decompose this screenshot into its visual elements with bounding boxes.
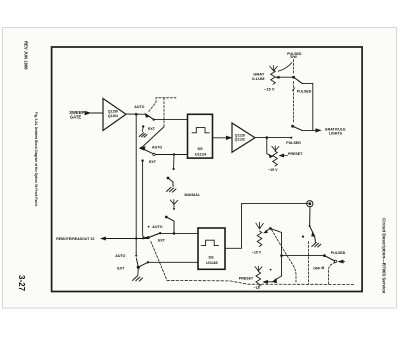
wire U2 output <box>255 137 291 139</box>
linkage curve from GRAT pot shaft to PULSED S/W <box>278 63 292 72</box>
wire U1124 output to U2 with arrow <box>213 137 229 139</box>
S5 open contact <box>302 236 304 238</box>
trident above R1 <box>272 146 279 151</box>
S4 ground stub <box>137 267 140 275</box>
wire U1148 output up to lamp <box>225 204 308 249</box>
op-amp U1 sweep gate amplifier Q1156/Q1164 <box>103 99 126 131</box>
svg-text:LIGHTS: LIGHTS <box>329 132 343 136</box>
svg-text:U1148: U1148 <box>206 260 218 265</box>
svg-text:3-27: 3-27 <box>17 275 26 292</box>
block U1148 single sweep <box>198 228 225 269</box>
wire bus to S7 PULSED/OFF switch <box>282 255 325 257</box>
op-amp U2 pulsed amp Q1128/Q1132 <box>232 123 255 152</box>
S1B throw contact <box>141 148 153 154</box>
potentiometer R1 PRESET (pulsed amp) <box>273 151 278 166</box>
wire vertical rail from node A down <box>135 114 137 252</box>
dashed linkage diagonal S3 to bottom rail <box>151 242 167 281</box>
svg-text:−15 V: −15 V <box>264 86 275 91</box>
bottom dashed linkage rail <box>167 280 355 284</box>
switch S3 (readout pole) <box>147 236 150 239</box>
node A junction <box>135 113 138 116</box>
svg-text:Q1164: Q1164 <box>108 114 118 118</box>
svg-text:EXT: EXT <box>148 127 156 131</box>
switch S2 (MAN pole) arm <box>165 216 168 219</box>
dashed linkage from S1A up to rail <box>149 98 176 112</box>
svg-text:PRESET: PRESET <box>239 276 254 280</box>
GRAT ILLUM pot R4 <box>271 70 276 84</box>
R2 wiper arrow from S6 <box>266 228 270 231</box>
R3 wiper arrow <box>266 281 273 283</box>
switch S1A arm (AUTO/EXT upper pole) <box>147 115 154 120</box>
svg-text:U1124: U1124 <box>195 151 207 156</box>
wire S4 to U1148 lower input <box>148 261 198 263</box>
S9 lower graticule switch <box>291 125 294 128</box>
S8 arm to contact <box>294 77 303 83</box>
svg-text:EXT: EXT <box>158 238 166 242</box>
svg-text:S/W: S/W <box>290 55 297 59</box>
trident above R2 <box>256 222 263 228</box>
svg-text:−15 V: −15 V <box>252 250 262 254</box>
wire contact to vertical <box>302 83 313 130</box>
stub down to MANUAL switch contact <box>173 155 175 169</box>
switch S1B arm (lower pole AUTO) <box>141 127 164 148</box>
svg-text:Q1132: Q1132 <box>235 138 245 142</box>
svg-text:GATE: GATE <box>70 114 82 119</box>
ground below MANUAL switch <box>167 187 177 192</box>
svg-text:ILLUM: ILLUM <box>252 76 265 81</box>
switch S4 (lower left pole) <box>137 266 140 269</box>
ground below S5 <box>312 243 321 248</box>
svg-text:Circuit Description—R7903 Serv: Circuit Description—R7903 Service <box>382 218 387 294</box>
S7 arm to PULSED contact <box>324 256 334 261</box>
svg-text:PULSED: PULSED <box>286 141 301 145</box>
potentiometer R2 (-15 V pot) <box>257 231 262 247</box>
MANUAL switch arm <box>167 177 170 180</box>
wire S1A to U1124 upper input <box>154 119 188 121</box>
svg-text:AUTO: AUTO <box>134 105 144 109</box>
svg-text:MANUAL: MANUAL <box>185 193 201 197</box>
svg-text:AUTO: AUTO <box>152 146 162 150</box>
svg-text:EXT: EXT <box>149 160 157 164</box>
dashed diagonal linkage from R2 switch to rail <box>272 230 297 284</box>
wire R2 wiper to vertical bus <box>270 228 281 276</box>
svg-text:AUTO: AUTO <box>115 254 125 258</box>
R1 wiper arrow from PRESET <box>282 154 288 156</box>
svg-text:REMOTE/READOUT 32: REMOTE/READOUT 32 <box>56 237 94 241</box>
position tick and label PULSED (S8) <box>292 88 295 91</box>
block U1124 single sweep <box>188 114 213 158</box>
S1B EXT contact on rail <box>141 159 143 161</box>
svg-text:AUTO: AUTO <box>152 225 162 229</box>
wire lamp down to switch S5 <box>310 207 314 235</box>
svg-text:OFF: OFF <box>313 267 321 271</box>
wire to GRATICULE LIGHTS arrow <box>302 129 316 131</box>
S3 AUTO contact dot <box>148 226 150 228</box>
wire S3 to U1148 upper input <box>160 232 198 234</box>
S1A EXT contact and stub <box>142 125 144 127</box>
trident above R4 <box>270 66 278 71</box>
svg-text:EXT: EXT <box>117 267 125 271</box>
wire S1B to U1124 lower input <box>155 154 187 156</box>
svg-text:PULSED: PULSED <box>297 89 312 93</box>
svg-text:Fig. 3-24. Detailed Block Diag: Fig. 3-24. Detailed Block Diagram of the… <box>34 112 38 207</box>
wire amp output to node A <box>126 113 147 115</box>
schematic border frame <box>52 47 363 292</box>
position marker dot <box>270 269 272 271</box>
arm down to R3 wiper <box>275 276 282 280</box>
junction on U1124 lower input wire <box>173 153 175 155</box>
dashed linkage from S7 down <box>329 263 336 285</box>
svg-text:PULSED: PULSED <box>331 251 346 255</box>
dashed linkage vertical to S1B <box>163 98 165 127</box>
trident above R3 <box>255 266 262 271</box>
R4 wiper arrow and wire to S8 <box>279 76 294 78</box>
potentiometer R3 PRESET (bottom) <box>256 272 261 287</box>
lamp DS1 graticule <box>307 201 313 207</box>
svg-text:−15: −15 <box>254 286 260 290</box>
trident adjuster with down arrow <box>170 200 178 209</box>
PULSED output arrow <box>340 261 345 263</box>
svg-text:−15 V: −15 V <box>268 168 278 172</box>
dashed linkage from S5 down <box>307 242 309 285</box>
dashed linkage vertical (PULSED S/W) <box>293 60 295 74</box>
wire down to preset pot R1 <box>267 138 271 156</box>
svg-text:REV JUN 1986: REV JUN 1986 <box>24 41 29 70</box>
SWEEP GATE input arrow <box>91 112 103 114</box>
ground below S4 <box>133 276 143 281</box>
wire EXT rail down to S3 pivot <box>143 161 148 238</box>
svg-text:PRESET: PRESET <box>288 152 303 156</box>
ground below S1A EXT <box>139 133 147 137</box>
